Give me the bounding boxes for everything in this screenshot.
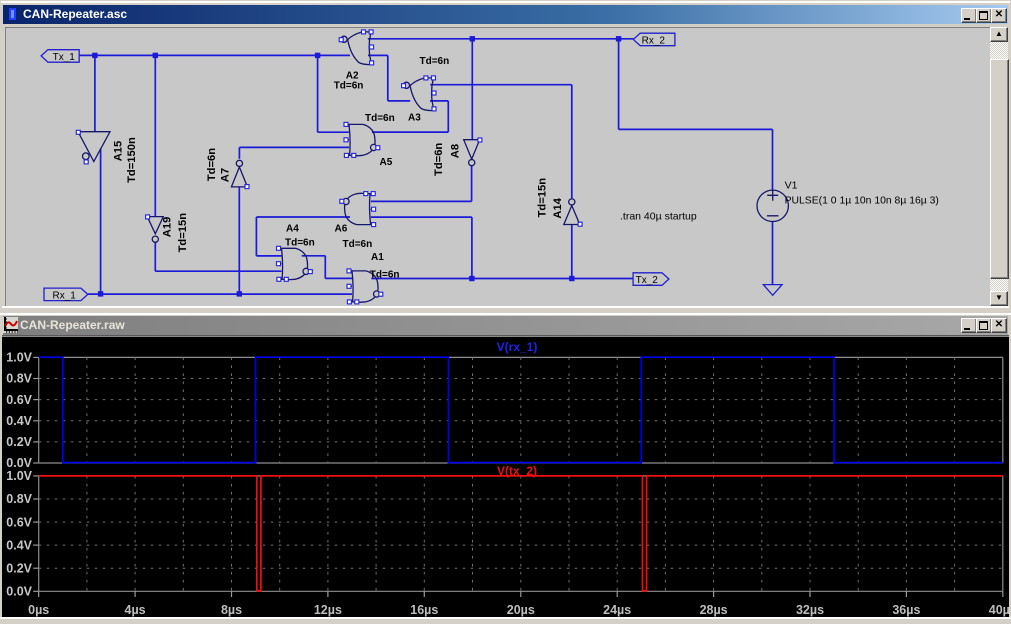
svg-text:A19: A19 bbox=[162, 217, 174, 238]
svg-text:Rx_2: Rx_2 bbox=[642, 35, 666, 46]
vertical scrollbar bbox=[990, 28, 1008, 306]
plot client top border bbox=[2, 335, 1009, 337]
wire to A19 input bbox=[154, 55, 156, 216]
junction Rx_2/V1 bbox=[616, 36, 621, 41]
inverter A7 (inverter, pointing up) bbox=[231, 160, 249, 188]
title bar bbox=[3, 5, 1008, 24]
and-gate A6 (AND gate, rotated 180) bbox=[340, 192, 376, 227]
icon bbox=[3, 317, 18, 333]
inverter A8 (inverter, pointing down) bbox=[464, 138, 482, 166]
svg-text:PULSE(1 0 1µ 10n 10n 8µ 16µ 3): PULSE(1 0 1µ 10n 10n 8µ 16µ 3) bbox=[785, 195, 939, 206]
svg-text:Tx_1: Tx_1 bbox=[53, 52, 76, 63]
wire A3 p2 row to A14 output bbox=[430, 84, 572, 86]
svg-text:A14: A14 bbox=[552, 197, 564, 218]
svg-text:0.0V: 0.0V bbox=[6, 585, 32, 599]
port Rx_1 (pointing right) bbox=[44, 288, 88, 301]
trace V(tx_2) red bbox=[39, 476, 1003, 591]
svg-text:A4: A4 bbox=[286, 224, 299, 235]
svg-text:A2: A2 bbox=[346, 70, 359, 81]
inverter A14 (inverter, pointing up) bbox=[564, 199, 582, 226]
wire Rx_1 row bbox=[88, 293, 352, 295]
svg-text:A8: A8 bbox=[450, 144, 462, 158]
svg-text:A3: A3 bbox=[408, 113, 421, 124]
svg-text:1.0V: 1.0V bbox=[6, 469, 32, 483]
or-gate A2 (OR gate, output left with bubble) bbox=[339, 30, 373, 65]
wire A1 output Tx_2 net bbox=[371, 278, 633, 280]
port Tx_2 (pointing right) bbox=[633, 273, 669, 286]
title bar (inactive) bbox=[3, 316, 1008, 335]
plot area bbox=[2, 335, 1009, 617]
wire to A5 input p2 bbox=[318, 55, 349, 132]
wire Rx_2 to V1 bbox=[619, 39, 773, 190]
svg-text:V(rx_1): V(rx_1) bbox=[497, 340, 538, 354]
svg-text:0.2V: 0.2V bbox=[6, 435, 32, 449]
port Rx_2 (pointing left) bbox=[633, 33, 675, 46]
wire to A15 input bbox=[94, 55, 96, 131]
wire Tx_1 row bbox=[79, 54, 350, 56]
svg-text:V1: V1 bbox=[785, 180, 798, 192]
svg-text:1.0V: 1.0V bbox=[6, 351, 32, 365]
svg-text:0.8V: 0.8V bbox=[6, 372, 32, 386]
svg-text:Td=6n: Td=6n bbox=[206, 148, 218, 181]
svg-text:Td=6n: Td=6n bbox=[420, 56, 450, 67]
svg-text:0µs: 0µs bbox=[28, 603, 49, 617]
or-gate A3 (OR gate, output left with bubble) bbox=[402, 76, 436, 111]
svg-text:28µs: 28µs bbox=[700, 603, 728, 617]
svg-text:Tx_2: Tx_2 bbox=[636, 275, 659, 286]
svg-text:A1: A1 bbox=[371, 252, 384, 263]
wire A8 output to A6 p2 bbox=[371, 166, 472, 202]
x axis labels bbox=[28, 591, 1011, 617]
wire A7 input from Rx_1 row bbox=[238, 187, 240, 294]
and-gate A5 (AND gate) bbox=[344, 122, 380, 157]
wire A6 output to A4 p2 bbox=[256, 217, 350, 256]
svg-text:Td=6n: Td=6n bbox=[343, 239, 373, 250]
svg-text:A6: A6 bbox=[335, 224, 348, 235]
svg-text:8µs: 8µs bbox=[221, 603, 242, 617]
svg-text:Td=6n: Td=6n bbox=[365, 113, 395, 124]
svg-text:32µs: 32µs bbox=[796, 603, 824, 617]
svg-text:A5: A5 bbox=[380, 157, 393, 168]
wire A6 p4 to Tx_2 net bbox=[371, 217, 472, 278]
pane 2 grid V(tx_2) bbox=[6, 464, 1003, 598]
svg-text:36µs: 36µs bbox=[892, 603, 920, 617]
wire A15 output down bbox=[100, 148, 102, 294]
svg-text:0.6V: 0.6V bbox=[6, 393, 32, 407]
svg-text:4µs: 4µs bbox=[125, 603, 146, 617]
wire V1 to ground bbox=[772, 222, 774, 285]
svg-text:0.2V: 0.2V bbox=[6, 561, 32, 575]
svg-text:0.4V: 0.4V bbox=[6, 414, 32, 428]
inverter A19 (inverter, pointing down) bbox=[146, 215, 164, 242]
svg-text:Td=6n: Td=6n bbox=[285, 238, 315, 249]
and-gate A1 (AND gate) bbox=[347, 269, 383, 304]
junction Rx_1/A15 bbox=[98, 291, 103, 296]
pane 1 grid V(rx_1) bbox=[6, 340, 1003, 470]
trace V(rx_1) blue bbox=[39, 357, 1003, 462]
svg-text:16µs: 16µs bbox=[410, 603, 438, 617]
wire A7 output to A5 p4 bbox=[239, 147, 349, 159]
junction Tx_1/A19 bbox=[153, 53, 158, 58]
svg-text:Rx_1: Rx_1 bbox=[53, 290, 77, 301]
svg-text:Td=15n: Td=15n bbox=[536, 178, 548, 218]
svg-text:0.6V: 0.6V bbox=[6, 515, 32, 529]
svg-text:0.8V: 0.8V bbox=[6, 492, 32, 506]
wire A19 output to A4 p4 bbox=[155, 242, 281, 271]
svg-text:Td=15n: Td=15n bbox=[177, 213, 189, 253]
svg-text:0.4V: 0.4V bbox=[6, 538, 32, 552]
junction Tx_2/A6 bbox=[469, 276, 474, 281]
canvas bbox=[5, 27, 991, 307]
wire Rx_2 net bbox=[368, 38, 633, 40]
inverter A15 (buffer symbol pointing down) bbox=[76, 130, 110, 164]
svg-text:0.0V: 0.0V bbox=[6, 456, 32, 470]
port Tx_1 (pointing left) bbox=[41, 50, 79, 63]
svg-text:Td=6n: Td=6n bbox=[433, 143, 445, 176]
svg-text:24µs: 24µs bbox=[603, 603, 631, 617]
junction Rx_1/A7 bbox=[237, 291, 242, 296]
svg-text:40µs: 40µs bbox=[989, 603, 1009, 617]
wire Rx_2 to A8 input bbox=[471, 39, 473, 140]
wire A14 input bbox=[571, 225, 573, 279]
wire A5 output to A3 p4 bbox=[372, 101, 448, 132]
svg-text:Td=6n: Td=6n bbox=[334, 81, 364, 92]
wire A14 output up bbox=[571, 85, 573, 198]
svg-text:Td=150n: Td=150n bbox=[126, 137, 138, 183]
junction Tx_1/A15 bbox=[92, 53, 97, 58]
svg-text:Td=6n: Td=6n bbox=[370, 269, 400, 280]
ground symbol bbox=[763, 285, 782, 296]
wire A2 p4 to A3 bbox=[368, 55, 410, 101]
svg-text:A7: A7 bbox=[219, 168, 231, 182]
and-gate A4 (AND gate) bbox=[277, 246, 313, 281]
voltage source V1 bbox=[757, 190, 788, 222]
svg-text:.tran 40µ startup: .tran 40µ startup bbox=[620, 211, 697, 223]
svg-text:A15: A15 bbox=[113, 141, 125, 162]
junction Tx_2/A14 bbox=[569, 276, 574, 281]
svg-text:20µs: 20µs bbox=[507, 603, 535, 617]
wire A4 output to A1 p2 bbox=[302, 256, 352, 279]
junction Rx_2/A8 bbox=[470, 36, 475, 41]
svg-text:12µs: 12µs bbox=[314, 603, 342, 617]
junction Tx_1/A5 bbox=[315, 53, 320, 58]
